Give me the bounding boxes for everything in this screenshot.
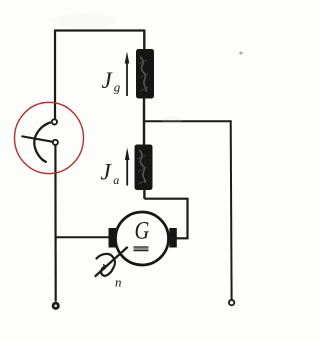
wire middle vertical lead between resistors bbox=[143, 97, 145, 146]
DC bar under G bbox=[134, 246, 149, 251]
svg-text:J: J bbox=[101, 160, 113, 185]
red highlight circle bbox=[15, 102, 84, 173]
wire horizontal to right of Ja bbox=[144, 198, 187, 200]
switch upper contact bbox=[52, 119, 57, 124]
terminal right bbox=[229, 300, 234, 305]
wire right vertical drop bbox=[230, 120, 233, 299]
svg-text:G: G bbox=[135, 217, 150, 244]
svg-text:g: g bbox=[114, 80, 121, 95]
switch lower contact bbox=[53, 140, 58, 145]
wire branch horizontal to right bbox=[144, 120, 231, 122]
arrow Ia (current arrow up) bbox=[125, 148, 130, 186]
node branch junction bbox=[143, 120, 145, 122]
wire horizontal from left vertical to left brush bbox=[55, 236, 109, 238]
wire horizontal into right brush bbox=[176, 237, 189, 239]
svg-text:J: J bbox=[102, 68, 114, 93]
wire left vertical (switch to bottom terminal) bbox=[54, 146, 56, 302]
switch handle line bbox=[22, 136, 53, 141]
wire resistor Ja bottom lead bbox=[143, 190, 145, 199]
resistor Ja (hatched body) bbox=[135, 145, 153, 191]
arrow Ig (current arrow up) bbox=[125, 52, 130, 97]
svg-text:a: a bbox=[113, 173, 119, 187]
resistor Rg (hatched body) bbox=[136, 49, 154, 99]
rotation symbol n (curved arrow through generator edge) bbox=[96, 248, 128, 277]
brush right bbox=[169, 228, 177, 248]
generator G circle bbox=[116, 212, 169, 265]
switch blade arc bbox=[34, 123, 50, 162]
wire top-left vertical down to switch bbox=[54, 30, 56, 120]
wire resistor Rg top lead bbox=[143, 30, 145, 51]
faint print dot artifact bbox=[239, 51, 242, 54]
svg-text:n: n bbox=[115, 275, 122, 290]
wire vertical down to right brush bbox=[186, 198, 188, 239]
faint smudge right mid bbox=[162, 116, 182, 124]
wire top horizontal bbox=[55, 29, 145, 31]
terminal left bbox=[53, 303, 58, 308]
faint smudge top bbox=[53, 14, 117, 28]
brush left bbox=[109, 228, 117, 248]
